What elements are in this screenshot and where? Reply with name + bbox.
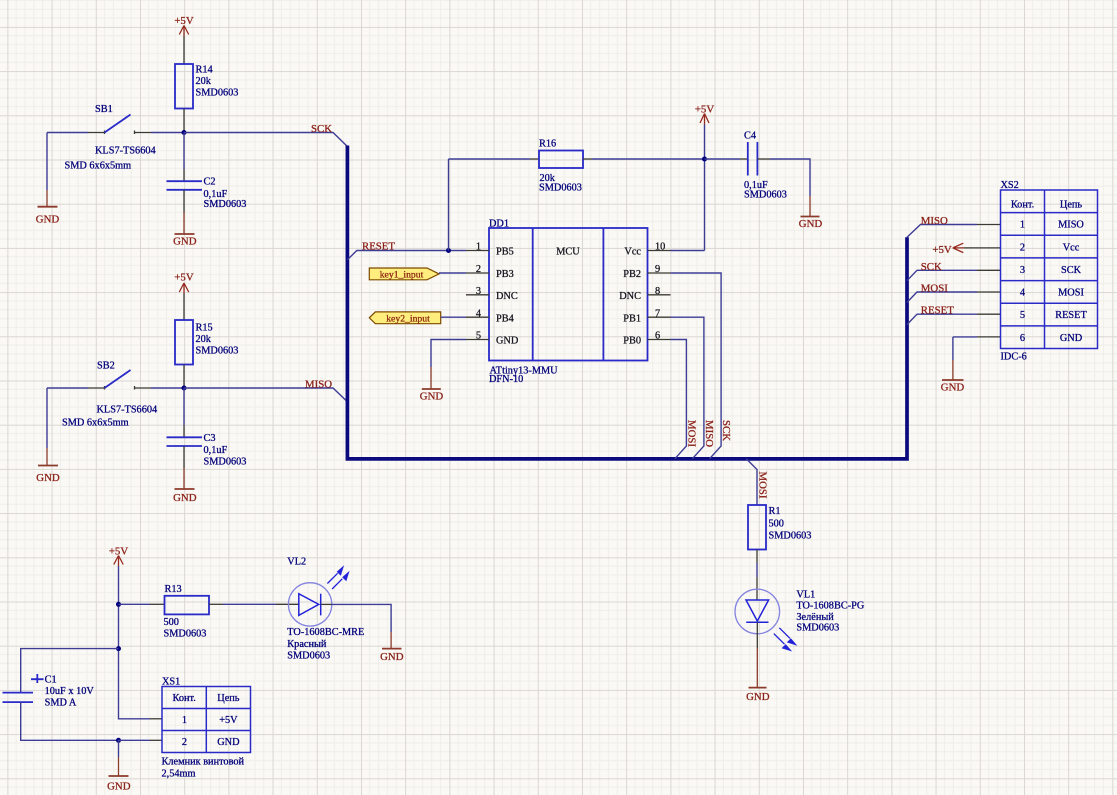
ground (DD1) <box>420 367 444 403</box>
svg-text:key2_input: key2_input <box>386 314 430 325</box>
resistor R14 <box>175 64 238 109</box>
svg-text:Конт.: Конт. <box>1011 200 1034 211</box>
pin 7 PB1 <box>623 308 670 324</box>
svg-text:7: 7 <box>655 308 660 319</box>
op-amp U1 MCU DD1 box <box>489 218 648 385</box>
svg-text:PB1: PB1 <box>623 313 641 324</box>
wire <box>119 739 151 741</box>
svg-text:MOSI: MOSI <box>1058 288 1084 299</box>
svg-text:MISO: MISO <box>1058 220 1084 231</box>
svg-text:6: 6 <box>1020 333 1025 344</box>
wire <box>183 109 185 133</box>
svg-text:GND: GND <box>1060 333 1083 344</box>
svg-text:SB2: SB2 <box>97 361 115 372</box>
power +5V (R15 top) <box>174 272 193 294</box>
svg-text:R1: R1 <box>769 506 781 517</box>
svg-text:PB5: PB5 <box>496 247 514 258</box>
junction <box>116 646 121 651</box>
svg-text:SMD0603: SMD0603 <box>204 199 247 210</box>
svg-text:RESET: RESET <box>362 240 395 252</box>
resistor R16 <box>539 138 583 193</box>
pin 4 PB4 <box>466 308 514 324</box>
junction <box>702 157 707 162</box>
svg-text:DD1: DD1 <box>489 218 509 229</box>
wire <box>756 550 758 564</box>
wire MISO <box>184 388 347 402</box>
svg-text:20k: 20k <box>196 334 212 345</box>
svg-text:C2: C2 <box>204 176 216 187</box>
LED VL2 <box>287 556 364 661</box>
wire <box>118 740 120 757</box>
svg-text:2: 2 <box>182 737 187 748</box>
wire <box>47 388 184 448</box>
wire <box>119 603 151 605</box>
svg-text:PB4: PB4 <box>496 313 514 324</box>
ground (C3) <box>173 468 197 504</box>
svg-text:+5V: +5V <box>219 715 238 726</box>
wire <box>439 272 466 274</box>
svg-text:SMD A: SMD A <box>45 698 77 709</box>
svg-text:RESET: RESET <box>1055 310 1087 321</box>
svg-text:0,1uF: 0,1uF <box>204 445 228 456</box>
svg-text:1: 1 <box>182 715 187 726</box>
svg-text:GND: GND <box>496 336 519 347</box>
wire PB0/MOSI <box>671 340 687 459</box>
wire <box>183 365 185 389</box>
svg-text:GND: GND <box>746 691 770 703</box>
svg-text:R15: R15 <box>196 323 213 334</box>
svg-text:DFN-10: DFN-10 <box>489 374 523 385</box>
svg-text:10uF x 10V: 10uF x 10V <box>45 686 95 697</box>
capacitor C4 <box>744 131 787 201</box>
pin 6 PB0 <box>623 331 670 347</box>
svg-text:1: 1 <box>476 242 481 253</box>
pin 9 PB2 <box>623 264 670 280</box>
svg-text:IDC-6: IDC-6 <box>1001 352 1027 363</box>
junction <box>182 386 187 391</box>
pin 3 DNC <box>466 286 518 302</box>
svg-text:+5V: +5V <box>174 15 193 27</box>
wire MOSI drop <box>746 459 757 505</box>
wire PB2/SCK <box>671 273 722 459</box>
svg-text:KLS7-TS6604: KLS7-TS6604 <box>95 146 156 157</box>
capacitor C2 <box>167 176 247 210</box>
svg-text:3: 3 <box>476 286 481 297</box>
wire <box>756 622 758 648</box>
svg-text:TO-1608BC-PG: TO-1608BC-PG <box>796 601 864 612</box>
svg-text:Vcc: Vcc <box>624 247 641 258</box>
svg-text:MISO: MISO <box>921 215 948 227</box>
ground (SB2) <box>36 448 60 484</box>
svg-text:SCK: SCK <box>311 123 332 135</box>
svg-text:4: 4 <box>1020 288 1025 299</box>
resistor R1 <box>748 505 811 550</box>
svg-text:GND: GND <box>107 780 131 792</box>
svg-text:C3: C3 <box>204 433 216 444</box>
svg-text:C1: C1 <box>45 675 57 686</box>
svg-text:key1_input: key1_input <box>380 269 424 280</box>
power +5V (XS2 row2) <box>932 243 964 256</box>
svg-text:9: 9 <box>655 264 660 275</box>
svg-text:MOSI: MOSI <box>685 420 697 447</box>
svg-text:2: 2 <box>1020 242 1025 253</box>
pin 2 PB3 <box>466 264 514 280</box>
svg-text:SMD0603: SMD0603 <box>164 628 207 639</box>
svg-text:+5V: +5V <box>174 272 193 284</box>
wire RESET to XS2 <box>907 314 977 324</box>
svg-text:MOSI: MOSI <box>921 283 948 295</box>
switch SB1 <box>65 104 156 172</box>
resistor R13 <box>164 584 210 639</box>
svg-text:SCK: SCK <box>1061 265 1082 276</box>
wire <box>183 294 185 321</box>
svg-text:SMD 6x6x5mm: SMD 6x6x5mm <box>65 161 132 172</box>
svg-text:C4: C4 <box>744 131 756 142</box>
port key1_input <box>369 268 439 280</box>
svg-text:SMD 6x6x5mm: SMD 6x6x5mm <box>62 418 129 429</box>
svg-text:GND: GND <box>217 737 240 748</box>
svg-text:SB1: SB1 <box>95 104 113 115</box>
wire <box>183 133 185 170</box>
power +5V (R14 top) <box>174 15 193 36</box>
connector XS1 table <box>162 677 251 780</box>
wire <box>671 125 705 251</box>
pin 5 GND <box>466 331 519 347</box>
capacitor C3 <box>167 433 247 467</box>
svg-text:PB3: PB3 <box>496 269 514 280</box>
svg-text:VL2: VL2 <box>287 556 306 567</box>
svg-text:500: 500 <box>164 617 179 628</box>
wire <box>448 159 450 251</box>
svg-text:MISO: MISO <box>703 420 715 447</box>
connector XS2 table <box>1001 180 1098 363</box>
wire <box>183 190 185 213</box>
junction <box>182 130 187 135</box>
svg-text:1: 1 <box>1020 220 1025 231</box>
wire <box>183 388 185 425</box>
svg-text:5: 5 <box>476 331 481 342</box>
svg-text:SMD0603: SMD0603 <box>287 651 330 662</box>
svg-text:R16: R16 <box>539 138 556 149</box>
ground (C2) <box>173 213 197 248</box>
ground (VL1) <box>746 648 770 703</box>
wire <box>583 158 592 160</box>
svg-text:SMD0603: SMD0603 <box>769 531 812 542</box>
svg-text:SCK: SCK <box>720 420 732 441</box>
wire SCK to XS2 <box>907 270 977 280</box>
wire PB1/MISO <box>671 317 704 459</box>
svg-text:5: 5 <box>1020 310 1025 321</box>
junction <box>446 248 451 253</box>
svg-text:PB2: PB2 <box>623 269 641 280</box>
wire <box>21 702 119 740</box>
port key2_input <box>369 312 440 325</box>
wire MISO to XS2 <box>907 225 977 238</box>
power +5V (bottom left) <box>109 546 128 567</box>
wire GND row XS2 <box>977 336 1001 338</box>
ground (SB1) <box>36 190 60 226</box>
svg-text:+5V: +5V <box>932 244 951 256</box>
pin 8 DNC <box>619 286 670 302</box>
svg-text:SMD0603: SMD0603 <box>744 190 787 201</box>
ground (bottom left) <box>107 757 131 792</box>
resistor R15 <box>175 320 238 365</box>
wire <box>449 158 531 160</box>
svg-text:SMD0603: SMD0603 <box>196 88 239 99</box>
svg-text:R14: R14 <box>196 65 213 76</box>
svg-text:DNC: DNC <box>619 291 641 302</box>
svg-text:GND: GND <box>941 382 965 394</box>
junction <box>116 602 121 607</box>
svg-text:MISO: MISO <box>305 379 332 391</box>
svg-text:SMD0603: SMD0603 <box>539 183 582 194</box>
pin 1 PB5 <box>466 242 514 258</box>
wire <box>119 566 151 719</box>
wire MOSI to XS2 <box>907 292 977 302</box>
svg-text:GND: GND <box>173 236 197 248</box>
wire <box>321 603 332 605</box>
svg-text:SCK: SCK <box>921 261 942 273</box>
capacitor C1 <box>3 674 95 709</box>
svg-text:Цепь: Цепь <box>1060 200 1083 211</box>
ground (VL2) <box>380 632 404 663</box>
wire <box>441 316 466 318</box>
svg-text:Vcc: Vcc <box>1063 242 1080 253</box>
power +5V (mid) <box>695 103 714 124</box>
svg-text:MCU: MCU <box>556 247 580 258</box>
svg-text:Цепь: Цепь <box>217 693 240 704</box>
ground (XS2) <box>941 360 965 394</box>
pin 10 Vcc <box>624 242 670 258</box>
svg-text:Красный: Красный <box>287 639 327 650</box>
wire <box>964 247 1001 249</box>
svg-text:4: 4 <box>476 308 481 319</box>
junction <box>116 738 121 743</box>
LED VL1 <box>735 589 865 651</box>
wire (pin5 to gnd) <box>431 340 466 368</box>
svg-text:SMD0603: SMD0603 <box>196 346 239 357</box>
wire <box>183 446 185 468</box>
svg-text:GND: GND <box>799 218 823 230</box>
svg-text:8: 8 <box>655 286 660 297</box>
svg-text:2: 2 <box>476 264 481 275</box>
bus wire (thick) <box>347 146 907 459</box>
svg-text:TO-1608BC-MRE: TO-1608BC-MRE <box>287 627 364 638</box>
wire <box>209 603 223 605</box>
svg-text:GND: GND <box>420 391 444 403</box>
wire <box>757 158 770 160</box>
wire <box>21 649 119 693</box>
svg-text:MOSI: MOSI <box>756 472 768 499</box>
svg-text:Конт.: Конт. <box>173 693 196 704</box>
wire <box>47 133 184 191</box>
svg-text:PB0: PB0 <box>623 336 641 347</box>
svg-text:6: 6 <box>655 331 660 342</box>
svg-text:KLS7-TS6604: KLS7-TS6604 <box>97 405 158 416</box>
switch SB2 <box>62 361 157 429</box>
svg-text:3: 3 <box>1020 265 1025 276</box>
wire <box>183 36 185 64</box>
svg-text:Клемник винтовой: Клемник винтовой <box>162 757 245 768</box>
svg-text:GND: GND <box>380 651 404 663</box>
svg-text:RESET: RESET <box>921 305 954 317</box>
wire RESET <box>347 251 466 260</box>
svg-text:VL1: VL1 <box>796 590 815 601</box>
wire SCK <box>184 133 347 147</box>
ground (C4) <box>799 196 823 230</box>
svg-text:20k: 20k <box>196 76 212 87</box>
svg-text:SMD0603: SMD0603 <box>204 456 247 467</box>
svg-text:GND: GND <box>36 214 60 226</box>
svg-text:GND: GND <box>36 472 60 484</box>
svg-text:DNC: DNC <box>496 291 518 302</box>
svg-text:GND: GND <box>173 492 197 504</box>
svg-text:R13: R13 <box>165 584 182 595</box>
svg-text:10: 10 <box>655 242 665 253</box>
svg-text:2,54mm: 2,54mm <box>162 769 196 780</box>
wire <box>705 158 741 160</box>
svg-text:500: 500 <box>769 518 784 529</box>
svg-text:SMD0603: SMD0603 <box>796 622 839 633</box>
